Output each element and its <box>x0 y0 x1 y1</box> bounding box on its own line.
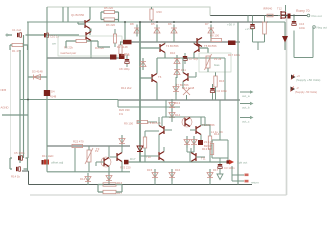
wire mid join <box>117 100 119 107</box>
input terminal X1 <box>6 34 8 36</box>
svg-text:T5 BC556: T5 BC556 <box>204 44 217 48</box>
wire C6 <box>253 16 265 51</box>
svg-text:D15: D15 <box>147 168 153 172</box>
frame right edge <box>286 14 288 195</box>
svg-text:return: return <box>251 181 259 185</box>
wire P2 <box>75 146 89 172</box>
diode D14 <box>87 173 89 185</box>
wire right-center vertical <box>237 22 239 185</box>
resistor R4 <box>113 34 116 43</box>
capacitor C6 <box>250 24 254 26</box>
transistor Q6 <box>196 126 201 135</box>
wire pin2 <box>2 114 28 116</box>
trimmer P1 <box>206 56 210 68</box>
wire left bus A <box>19 50 21 163</box>
svg-text:cer: cer <box>52 42 56 46</box>
wire R21 <box>145 131 159 162</box>
diode D11 <box>171 99 173 111</box>
resistor R9 <box>137 120 148 123</box>
svg-text:R17 100k: R17 100k <box>228 53 241 57</box>
svg-text:IRF640: IRF640 <box>263 7 273 11</box>
wire C2 <box>212 84 214 100</box>
junction dots rail <box>156 21 158 23</box>
wire zobel <box>220 158 228 174</box>
transistor Q10 <box>191 153 196 162</box>
diode D2b <box>123 40 132 45</box>
diode D2 <box>110 55 116 60</box>
net stub B <box>240 103 250 105</box>
resistor R15 <box>72 144 83 147</box>
diode D24 <box>34 75 41 80</box>
diode D6 <box>176 55 178 67</box>
transistor Q3 <box>194 44 199 53</box>
wire driver feed <box>165 100 167 117</box>
wire Q13 <box>183 58 196 88</box>
svg-text:bias: bias <box>214 63 220 67</box>
wire spk stub1 <box>232 174 244 176</box>
wire mosfet out <box>278 5 286 16</box>
svg-text:+50 V: +50 V <box>227 23 235 27</box>
feed wire top <box>47 7 210 16</box>
output L box <box>212 135 228 162</box>
frame bottom edge <box>30 194 287 196</box>
wire Q2 <box>140 42 165 58</box>
svg-text:D13: D13 <box>175 101 181 105</box>
transistor Q14 <box>182 117 192 127</box>
terminal pos out <box>307 14 310 17</box>
frame left faint <box>10 48 12 160</box>
resistor R23 <box>119 45 122 54</box>
wire zener net <box>187 148 194 162</box>
svg-text:R12 2k2: R12 2k2 <box>121 86 132 90</box>
resistor R17 <box>103 190 116 193</box>
wire Q8 <box>110 146 122 172</box>
svg-text:out_b: out_b <box>242 106 250 110</box>
zobel capacitor C3 <box>218 164 222 166</box>
wire feed drop <box>46 7 48 35</box>
wire P1 <box>207 68 209 72</box>
svg-text:R22 470: R22 470 <box>73 140 84 144</box>
svg-text:C2 100n: C2 100n <box>217 89 228 93</box>
svg-text:D3 4148: D3 4148 <box>32 70 43 74</box>
wire Q5 <box>159 117 172 152</box>
wire R1 loop <box>10 45 28 50</box>
resistor R5 <box>104 10 115 13</box>
resistor R24 <box>150 9 153 20</box>
svg-text:D14: D14 <box>80 177 86 181</box>
transistor Q8 <box>117 153 122 162</box>
svg-text:D11: D11 <box>181 68 186 72</box>
gate resistor R22 <box>267 14 273 17</box>
diode D8 <box>175 83 177 95</box>
svg-text:(Supply -50 Volts): (Supply -50 Volts) <box>295 90 317 94</box>
svg-text:D13 LED: D13 LED <box>42 154 53 158</box>
transistor Q13 <box>183 73 188 82</box>
svg-text:R11 1k: R11 1k <box>121 53 130 57</box>
power flag -V <box>291 87 296 92</box>
resistor R6 <box>104 18 115 21</box>
junction y100 <box>27 99 29 101</box>
wire D10 <box>186 95 188 100</box>
gate resistor R18 <box>263 22 267 34</box>
diode D27 inline <box>124 160 129 165</box>
diode D25 <box>136 25 138 37</box>
wire neg out branch <box>294 16 313 58</box>
diode D7 <box>176 66 178 78</box>
lower mid rail y146 <box>47 145 130 147</box>
wire Q9 <box>140 147 164 162</box>
mosfet M1 extra mark <box>288 14 291 19</box>
capacitor C11 <box>16 167 18 171</box>
svg-text:T12: T12 <box>277 7 282 11</box>
svg-text:R9 100: R9 100 <box>124 122 133 126</box>
diode D16 <box>171 169 173 181</box>
wire Q1 <box>78 7 90 35</box>
bottom rail <box>22 171 252 185</box>
svg-text:R5 220: R5 220 <box>104 6 113 10</box>
transistor Q9 <box>159 152 164 161</box>
wire Q7 <box>96 146 109 172</box>
transistor Q1 <box>85 20 90 29</box>
positive supply rail mid <box>140 21 268 23</box>
mid rail y100 dark <box>118 99 240 101</box>
svg-text:D4: D4 <box>51 90 55 94</box>
svg-text:T4 BC556: T4 BC556 <box>166 44 179 48</box>
wire Q10 <box>191 148 205 162</box>
wire R10 <box>201 125 210 162</box>
capacitor C7 <box>292 21 296 23</box>
power flag +V <box>291 75 296 80</box>
svg-text:R3 22k: R3 22k <box>64 46 73 50</box>
svg-text:R13 10: R13 10 <box>202 147 211 151</box>
wire gate <box>248 16 265 23</box>
svg-text:R16: R16 <box>219 79 225 83</box>
resistor R10 <box>208 136 211 149</box>
output rail 162 <box>124 161 229 163</box>
svg-text:P1 2k: P1 2k <box>214 57 222 61</box>
LTP box <box>58 36 122 56</box>
svg-text:C5 100u: C5 100u <box>14 151 25 155</box>
zener Z1 <box>198 140 203 145</box>
svg-text:out_c: out_c <box>242 120 250 124</box>
wire 225 vertical <box>224 58 226 100</box>
diode D5 <box>210 25 212 37</box>
svg-text:out_a: out_a <box>242 94 250 98</box>
wire spk stub2 <box>232 180 244 182</box>
resistor R3 <box>76 39 87 42</box>
wire output node <box>219 100 221 135</box>
svg-text:(Supply +50 Volts): (Supply +50 Volts) <box>296 78 320 82</box>
diode D26 <box>121 135 123 147</box>
svg-text:D5: D5 <box>151 22 155 26</box>
svg-text:T3: T3 <box>96 147 100 151</box>
resistor R8 <box>211 38 222 41</box>
svg-text:D8: D8 <box>130 22 134 26</box>
wire drops from feed <box>63 7 68 22</box>
front-end rail y58 <box>47 57 122 59</box>
wire base stub <box>28 76 47 78</box>
terminal mark 2 <box>245 180 249 183</box>
svg-text:R6 220: R6 220 <box>106 23 115 27</box>
svg-text:Romy 70: Romy 70 <box>296 9 310 13</box>
svg-text:AGND: AGND <box>1 106 9 110</box>
diode D19 <box>142 58 144 70</box>
mid rail y100 light <box>20 99 118 101</box>
bias box <box>199 53 231 72</box>
speaker terminal <box>229 160 234 165</box>
transistor Q3b <box>197 38 202 47</box>
capacitor C1 <box>17 33 19 37</box>
svg-text:1%: 1% <box>119 112 124 116</box>
diode D12 <box>171 109 173 121</box>
svg-text:Q1 BC556: Q1 BC556 <box>71 13 85 17</box>
resistor R16 <box>103 183 116 186</box>
wire R9 <box>137 121 157 123</box>
wire driver box <box>162 117 205 126</box>
wire Q3 <box>194 42 208 58</box>
svg-text:D6: D6 <box>168 22 172 26</box>
capacitor C2 <box>210 88 214 90</box>
trimmer P2 <box>87 150 91 162</box>
svg-text:D16: D16 <box>175 168 181 172</box>
svg-text:4148: 4148 <box>50 95 57 99</box>
wire left bus B <box>23 35 25 158</box>
diode D4 <box>173 25 175 37</box>
terminal neg out <box>313 26 316 29</box>
rail mid B <box>118 106 180 108</box>
wire drop 125 <box>124 22 126 40</box>
diode D29 <box>108 172 110 184</box>
svg-text:Neg out: Neg out <box>317 26 328 30</box>
svg-text:C3 100n: C3 100n <box>224 166 235 170</box>
diode D17 <box>209 169 211 181</box>
transistor Q12 <box>152 74 157 83</box>
output rail <box>210 15 307 17</box>
svg-text:D10: D10 <box>170 51 176 55</box>
svg-text:R8 100: R8 100 <box>210 34 219 38</box>
diode D22 <box>186 136 188 148</box>
wire Q12 <box>140 58 157 100</box>
svg-text:100n: 100n <box>299 26 306 30</box>
junction dot out <box>285 15 287 17</box>
wire diode bottoms <box>155 181 210 185</box>
transistor Q5 <box>159 126 164 135</box>
svg-text:Spk out: Spk out <box>237 161 247 165</box>
svg-text:NFB: NFB <box>1 88 7 92</box>
svg-text:C1 2u2: C1 2u2 <box>12 28 21 32</box>
wire R16 R17 <box>98 185 122 193</box>
diode D18 <box>284 22 286 50</box>
wire R7 <box>215 72 217 100</box>
mosfet M1 <box>281 11 286 19</box>
svg-text:C8 100p: C8 100p <box>119 67 130 71</box>
diode D23 <box>193 136 195 148</box>
left return vertical <box>27 22 29 158</box>
wire center vertical <box>139 22 141 162</box>
wire D8 <box>176 64 177 100</box>
resistor R7 <box>214 76 217 87</box>
net stub A <box>240 91 250 93</box>
diode D13 <box>42 160 44 165</box>
transistor Q15 <box>86 32 91 41</box>
wire Q6 <box>190 117 201 140</box>
diode D28 on center <box>137 146 143 152</box>
svg-text:D2 4148: D2 4148 <box>117 45 128 49</box>
rail emitters <box>157 57 225 59</box>
wire R5 R6 loop <box>101 12 119 22</box>
capacitor C10 <box>44 33 46 37</box>
wire D3 bottoms <box>157 37 211 43</box>
svg-text:C7 47p: C7 47p <box>189 57 198 61</box>
transistor Q7 <box>101 157 111 167</box>
wire C4 loop <box>10 158 28 171</box>
diode D10 cross <box>183 88 190 95</box>
svg-text:D17: D17 <box>213 168 219 172</box>
svg-text:T6: T6 <box>158 75 162 79</box>
svg-text:D14: D14 <box>175 113 181 117</box>
svg-text:R14 1k: R14 1k <box>11 175 20 179</box>
svg-text:D17: D17 <box>130 157 136 161</box>
wire LTP <box>66 41 110 48</box>
VAS rail <box>120 41 240 43</box>
svg-text:matched pair: matched pair <box>60 51 76 55</box>
resistor R21 <box>143 137 146 148</box>
svg-text:offset adj: offset adj <box>51 161 63 165</box>
capacitor C4 <box>18 156 20 160</box>
feedback diode D1 <box>44 90 50 96</box>
positive supply rail right <box>268 21 285 23</box>
wire input <box>8 34 79 36</box>
wire spk stub down <box>231 166 233 181</box>
wire rail 172 ext <box>47 146 130 172</box>
svg-text:Pos out: Pos out <box>312 14 322 18</box>
svg-text:L1 1u 10t: L1 1u 10t <box>211 130 223 134</box>
positive supply rail left <box>27 21 140 23</box>
terminal mark 1 <box>245 174 249 177</box>
svg-text:D7: D7 <box>205 22 209 26</box>
resistor R13 <box>210 144 213 155</box>
wire mid-left vertical <box>46 35 48 146</box>
ground zobel <box>217 174 223 180</box>
diode D15 <box>154 169 156 181</box>
diode D9 <box>228 41 236 46</box>
net stub C <box>240 117 250 119</box>
wire R9 drop <box>139 107 141 122</box>
capacitor C8 <box>125 59 129 61</box>
wire Q15 <box>79 29 91 59</box>
transistor Q2 <box>160 44 165 53</box>
svg-text:R30: R30 <box>157 10 163 14</box>
diode D3 <box>156 25 158 37</box>
capacitor C9 <box>183 56 187 58</box>
resistor R1 <box>12 43 23 46</box>
